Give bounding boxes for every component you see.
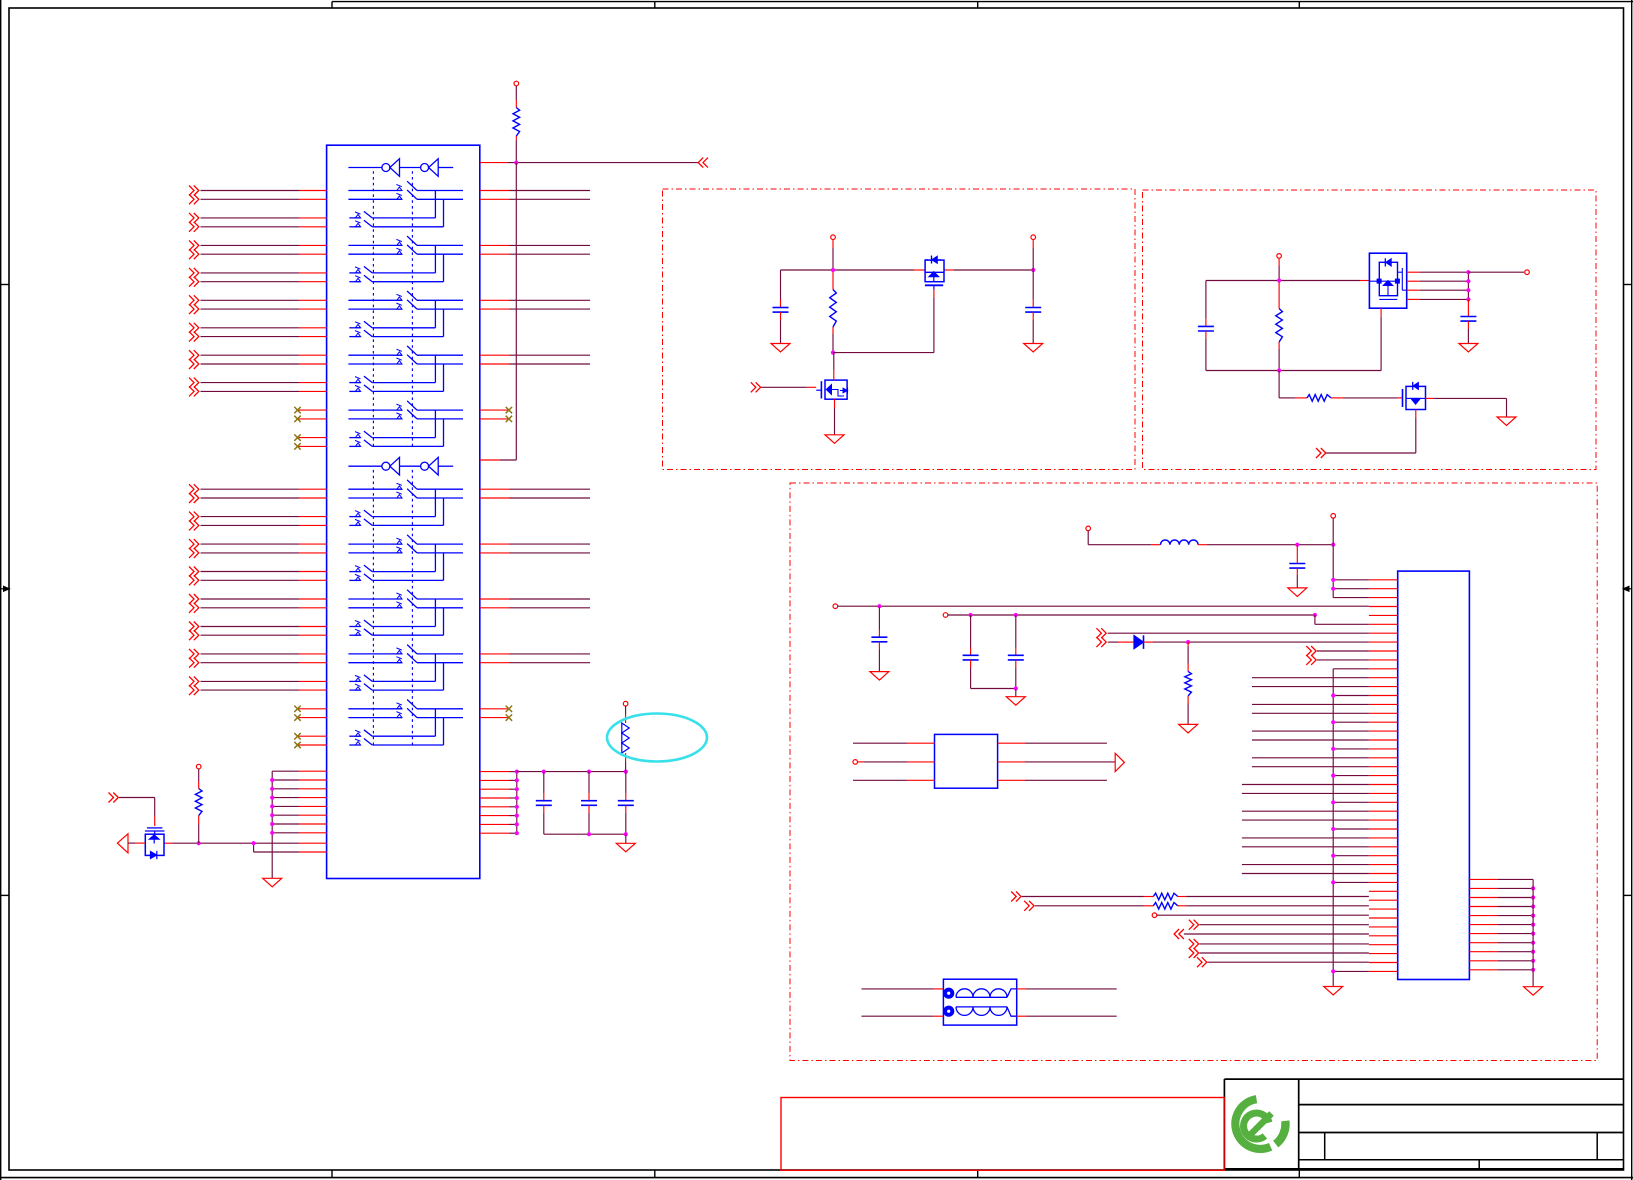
ground decoupling (625, 834, 627, 843)
resistor R4 (1278, 283, 1280, 309)
U1 switch group bottom5 (348, 708, 402, 710)
frame centering arrow left (1, 588, 9, 590)
transistor Q3 NMOS (820, 381, 822, 398)
wire signal bundle (1252, 677, 1369, 679)
transistor Q5 NMOS (1402, 389, 1404, 407)
U1 switch group top2 (348, 244, 402, 246)
oscillator Y1 body (935, 734, 998, 788)
wire TVS net to U1 (173, 842, 300, 844)
port arrow Y1 out (1115, 753, 1124, 771)
ground C7 (1459, 344, 1478, 353)
frame centering arrow right (1624, 588, 1632, 590)
wire EN net horizontal (480, 162, 508, 164)
U1 inverter pair bottom (348, 465, 382, 467)
wire decoupling bottom rail (544, 833, 626, 835)
title block red comment box (781, 1098, 1224, 1171)
highlight ellipse (607, 714, 707, 762)
wire Q3 gate (761, 386, 807, 388)
terminal VIN2 (1277, 254, 1282, 259)
U1 left power bus (271, 771, 273, 878)
resistor R5 (1307, 395, 1331, 402)
capacitor C6 (1205, 281, 1207, 319)
wire C10 C11 gnd rail (971, 688, 1016, 690)
wire line3 (1108, 632, 1369, 634)
capacitor C9 (878, 606, 880, 629)
wire Q4 bottom pin (1380, 308, 1382, 317)
U1 switch group bottom2 (348, 543, 402, 545)
ground Q3 (825, 435, 844, 444)
terminal VOUT2 (1468, 271, 1524, 273)
capacitor C3 (625, 772, 627, 793)
U1 switch group top3 (348, 299, 402, 301)
ground Q5 (1497, 417, 1516, 426)
frame zone tick marks (331, 2, 333, 8)
port chevron RB (1024, 901, 1029, 911)
ferrite bead FB1 (623, 701, 628, 706)
ground GND bus (1324, 987, 1343, 996)
wire EN vertical to U1 (515, 163, 517, 460)
U1 switch group bottom3 (348, 598, 402, 600)
port chevron SB5 (1197, 957, 1202, 967)
ground C8 (1288, 588, 1307, 597)
port arrow left (117, 834, 128, 853)
wire R5 to Q5 (1331, 397, 1343, 399)
wire box2 bottom rail (1206, 370, 1381, 372)
capacitor C5 (1032, 270, 1034, 300)
choke T1 wires (862, 988, 934, 990)
junction L1 rail (1295, 543, 1299, 547)
resistor R8 (1035, 905, 1144, 907)
company logo (1235, 1099, 1285, 1149)
capacitor C4 (780, 270, 782, 300)
ground U1 left bus (263, 878, 282, 887)
port chevron Q3 gate (751, 382, 756, 392)
title block outline (1224, 1078, 1623, 1080)
U1 right power bus (516, 772, 518, 834)
drawing frame outer page edge (0, 0, 2, 1180)
U1 control line dotted B (372, 470, 374, 746)
transistor Q1 TVS/load switch (147, 827, 163, 829)
capacitor C7 (1467, 299, 1469, 308)
connector J1 body (1398, 571, 1470, 979)
wire Q3 drain (833, 353, 835, 370)
wire Q5 source chevron (1415, 410, 1417, 419)
wire VCC bus top (1331, 514, 1336, 519)
capacitor C8 (1296, 545, 1298, 556)
resistor R2 pull-up (196, 764, 201, 769)
port chevron SB4 (1189, 948, 1194, 958)
wire Q3 source (834, 399, 836, 408)
diode D1 (1108, 641, 1118, 643)
port chevron SB3 (1189, 939, 1194, 949)
U1 left input port wires (189, 186, 194, 196)
junction TVS net (197, 841, 201, 845)
U1 no-connect pins (299, 409, 327, 411)
U1 inverter pair top (348, 167, 382, 169)
ground C5 (1024, 344, 1043, 353)
wire box2 rail (1206, 280, 1279, 282)
port chevron line3 (1096, 628, 1101, 638)
connector J1 left pin stubs (1369, 579, 1398, 581)
resistor R7 (1022, 896, 1144, 898)
U1 switch group bottom1 (348, 488, 402, 490)
wire Q4 pins (1407, 271, 1420, 273)
port chevron line6 (1306, 655, 1311, 665)
wire box1 gate link (833, 352, 934, 354)
junction box2 rail (1277, 278, 1281, 282)
terminal P3V3 (1086, 526, 1091, 531)
ground R6 (1179, 724, 1198, 733)
junction box1 (831, 268, 835, 272)
U1 switch group top1 (348, 190, 402, 192)
U1 switch group bottom4 (348, 653, 402, 655)
dash-dot box 1 (663, 189, 1136, 470)
wire box1 rail (781, 269, 915, 271)
capacitor C1 (543, 772, 545, 793)
port chevron RA (1011, 892, 1016, 902)
resistor R3 (832, 272, 834, 290)
U1 switch group top5 (348, 409, 402, 411)
dash-dot box 2 (1143, 190, 1597, 470)
resistor R6 pulldown (1187, 642, 1189, 646)
port chevron SB2 (1179, 929, 1184, 939)
U1 control line dotted A (372, 171, 374, 447)
dash-dot box 3 (790, 483, 1597, 1061)
terminal VOUT1 (1031, 235, 1036, 240)
ground C9 (870, 672, 889, 681)
capacitor C11 (1015, 615, 1017, 648)
wire rail B (943, 613, 948, 618)
transistor Q4 dual PMOS (1369, 253, 1406, 308)
U1 right output wires (480, 190, 509, 192)
capacitor C2 (588, 772, 590, 793)
U1 switch group top4 (348, 354, 402, 356)
ground C4 (771, 344, 790, 353)
terminal VIN1 (831, 235, 836, 240)
junction box1 gate (831, 351, 835, 355)
wire Q5 drain right (1426, 397, 1435, 399)
port chevron SB1 (1189, 920, 1194, 930)
resistor R1 pull-up (514, 81, 519, 86)
port chevron line4 (1096, 637, 1101, 647)
junction EN net (514, 161, 518, 165)
wire decoupling top rail (517, 771, 626, 773)
port chevron line5 (1306, 646, 1311, 656)
wire Q5 gate feed (1278, 371, 1280, 391)
choke T1 windings (943, 988, 954, 999)
wire rail A (833, 604, 838, 609)
wire TVS gate (119, 797, 155, 799)
capacitor C10 (970, 615, 972, 648)
Y1 pins (853, 742, 907, 744)
transistor Q2 PMOS (931, 256, 933, 264)
wire GND bus J1 (1332, 669, 1334, 987)
ground C10 C11 (1006, 697, 1025, 706)
wire J1 right pins (1469, 878, 1498, 880)
choke T1 body (943, 979, 1016, 1025)
analog switch IC U1 body (327, 145, 480, 878)
inductor L1 (1088, 544, 1152, 546)
ground J1 right (1524, 987, 1543, 996)
wire sense line (1152, 913, 1157, 918)
port chevron TVS gate (109, 793, 114, 803)
